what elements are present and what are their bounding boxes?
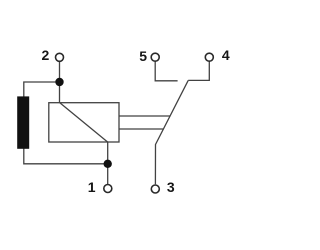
svg-text:1: 1 (88, 179, 96, 195)
svg-text:5: 5 (139, 48, 147, 64)
svg-text:3: 3 (167, 179, 175, 195)
svg-text:4: 4 (222, 47, 230, 63)
svg-text:2: 2 (42, 47, 50, 63)
